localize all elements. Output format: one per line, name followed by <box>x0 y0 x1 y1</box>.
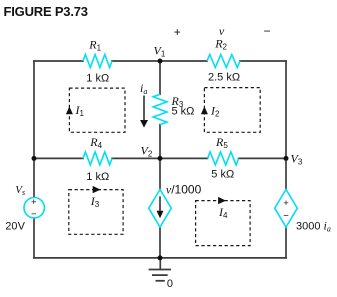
svg-text:I1: I1 <box>75 103 85 118</box>
svg-text:FIGURE P3.73: FIGURE P3.73 <box>4 4 89 19</box>
svg-text:3000 ia: 3000 ia <box>296 219 331 234</box>
svg-text:2.5 kΩ: 2.5 kΩ <box>208 72 240 84</box>
svg-text:+: + <box>174 25 181 39</box>
svg-text:1 kΩ: 1 kΩ <box>86 171 109 183</box>
svg-text:−: − <box>263 24 270 38</box>
svg-text:5 kΩ: 5 kΩ <box>172 106 195 118</box>
svg-text:+: + <box>31 197 37 208</box>
svg-text:R4: R4 <box>89 135 102 150</box>
svg-text:v/1000: v/1000 <box>166 182 202 196</box>
svg-text:5 kΩ: 5 kΩ <box>211 168 234 180</box>
svg-text:−: − <box>31 209 37 220</box>
svg-text:I2: I2 <box>210 103 220 118</box>
svg-text:20: 20 <box>5 221 17 233</box>
svg-text:I4: I4 <box>218 205 228 220</box>
svg-text:V: V <box>18 221 26 233</box>
svg-text:V1: V1 <box>154 44 166 59</box>
svg-text:R5: R5 <box>215 135 228 150</box>
svg-text:0: 0 <box>167 278 173 290</box>
svg-text:V3: V3 <box>291 152 303 167</box>
svg-text:1 kΩ: 1 kΩ <box>86 72 109 84</box>
svg-text:ia: ia <box>140 81 147 96</box>
svg-text:R2: R2 <box>214 36 227 51</box>
svg-text:−: − <box>283 210 289 221</box>
svg-text:I3: I3 <box>90 194 100 209</box>
svg-text:Vs: Vs <box>15 184 25 197</box>
svg-text:V2: V2 <box>141 143 153 158</box>
svg-text:+: + <box>283 198 289 209</box>
svg-text:R1: R1 <box>88 38 101 53</box>
